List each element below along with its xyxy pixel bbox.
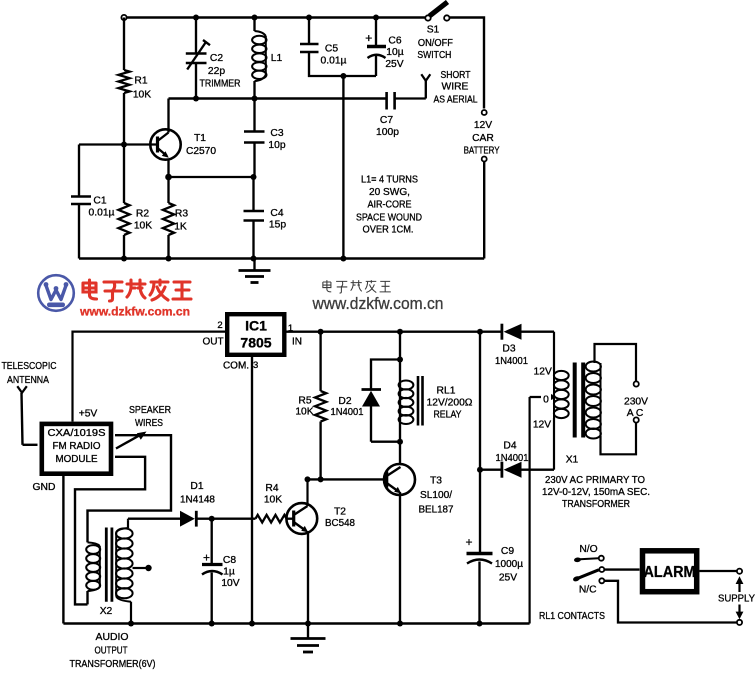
svg-text:SL100/: SL100/ [420, 490, 452, 501]
capacitor C3 10p [244, 99, 286, 178]
svg-text:1N4001: 1N4001 [495, 356, 528, 367]
svg-text:7805: 7805 [240, 335, 271, 351]
junction C5/C6 ground link [340, 73, 346, 79]
svg-text:C9: C9 [501, 546, 514, 557]
wire top supply rail [127, 16, 426, 18]
svg-text:20 SWG,: 20 SWG, [369, 187, 410, 198]
wire N/C contact to supply return [604, 581, 737, 623]
switch S1 [417, 2, 453, 61]
svg-text:TELESCOPIC: TELESCOPIC [2, 361, 57, 372]
svg-text:T3: T3 [430, 476, 442, 487]
junction ground / T3 emitter [397, 621, 403, 627]
diode D4 1N4001 [480, 441, 554, 478]
svg-text:ON/OFF: ON/OFF [418, 38, 453, 49]
svg-text:SHORT: SHORT [441, 70, 472, 81]
wire alarm to supply [700, 570, 737, 572]
note X1 transformer rating [542, 475, 650, 510]
svg-text:C6: C6 [388, 36, 401, 47]
svg-text:0.01µ: 0.01µ [89, 208, 115, 219]
junction emitter node [165, 174, 172, 181]
capacitor C5 0.01u [300, 18, 376, 77]
svg-text:C8: C8 [223, 555, 236, 566]
svg-text:www.dzkfw.com.cn: www.dzkfw.com.cn [312, 295, 444, 313]
capacitor C1 0.01u [71, 145, 115, 259]
wire X1 center tap to ground rail [528, 397, 530, 624]
transistor T2 BC548 [286, 503, 355, 534]
junction IN / relay branch [397, 329, 403, 335]
relay RL1 contacts common arm [572, 567, 604, 582]
svg-text:ALARM: ALARM [644, 564, 696, 581]
svg-text:R3: R3 [175, 209, 188, 220]
label audio transformer [70, 632, 156, 670]
svg-text:10p: 10p [268, 140, 285, 151]
svg-text:CAR: CAR [472, 133, 494, 144]
capacitor C9 1000u 25V electrolytic [465, 535, 523, 624]
resistor R3 1K [163, 177, 188, 259]
junction IN / C9 D4 branch [477, 329, 483, 335]
svg-text:A C: A C [627, 408, 644, 419]
junction tank rail / L1 C3 [252, 96, 258, 102]
junction IN / R5 [318, 329, 324, 335]
svg-text:OUT: OUT [202, 337, 223, 348]
junction C3 C4 midpoint [251, 174, 257, 180]
svg-text:BATTERY: BATTERY [464, 146, 500, 157]
junction top rail / C2 [193, 15, 199, 21]
ground symbol top circuit [239, 259, 271, 283]
svg-text:10K: 10K [295, 407, 313, 418]
svg-text:0.01µ: 0.01µ [321, 56, 347, 67]
svg-text:12V-0-12V, 150mA SEC.: 12V-0-12V, 150mA SEC. [542, 487, 650, 498]
center watermark gray brand characters [323, 280, 391, 293]
FM radio module CXA/1019S [42, 424, 111, 474]
junction ground / C8 [209, 621, 215, 627]
wire module audio out lower [75, 457, 145, 605]
diode D1 1N4148 [128, 481, 215, 527]
capacitor C6 10u 25V electrolytic [365, 18, 404, 77]
junction ground / C4 [251, 256, 257, 262]
svg-text:D3: D3 [502, 344, 515, 355]
node supply-terminal top-left [121, 15, 126, 20]
svg-text:+: + [465, 535, 472, 549]
svg-text:25V: 25V [385, 59, 403, 70]
svg-text:D2: D2 [338, 396, 351, 407]
svg-text:1N4001: 1N4001 [331, 407, 364, 418]
junction ground / C5 C6 [340, 256, 346, 262]
svg-text:R4: R4 [265, 483, 278, 494]
relay RL1 contacts N/C [579, 578, 604, 595]
svg-text:D1: D1 [190, 481, 203, 492]
junction relay/D2 top [397, 357, 403, 363]
label speaker wires + arrow [116, 405, 171, 449]
svg-text:WIRES: WIRES [135, 418, 163, 429]
junction top rail / L1 [252, 15, 258, 21]
svg-text:S1: S1 [427, 25, 440, 36]
svg-text:10µ: 10µ [386, 47, 403, 58]
capacitor C4 15p [244, 177, 287, 259]
wire top circuit ground rail [79, 257, 484, 260]
svg-text:AS AERIAL: AS AERIAL [434, 95, 478, 106]
svg-text:3: 3 [253, 360, 258, 371]
svg-text:22p: 22p [208, 66, 225, 77]
wire T3 emitter to ground [399, 492, 401, 624]
svg-text:10K: 10K [134, 221, 152, 232]
junction ground / IC1 COM [249, 621, 255, 627]
diode D3 1N4001 [495, 324, 554, 367]
svg-text:X2: X2 [100, 606, 113, 617]
wire switch to battery positive [450, 18, 484, 109]
wire T1 base net [79, 143, 158, 145]
svg-text:L1: L1 [271, 53, 283, 64]
junction top rail / C6 [373, 15, 379, 21]
IC U1 7805 regulator [227, 314, 284, 355]
svg-text:IC1: IC1 [245, 318, 267, 334]
relay RL1 coil 12V/200ohm [399, 360, 473, 442]
svg-text:10K: 10K [264, 495, 282, 506]
svg-text:15p: 15p [269, 220, 286, 231]
junction ground / X2 secondary [128, 621, 134, 627]
wire T2 collector up to T3 base rail [306, 479, 308, 506]
svg-text:BEL187: BEL187 [419, 505, 454, 516]
svg-text:SUPPLY: SUPPLY [718, 594, 755, 605]
wire T1 emitter to C3/C4 node [167, 159, 169, 178]
svg-text:C1: C1 [93, 196, 106, 207]
wire battery negative to ground rail [483, 162, 485, 259]
telescopic antenna [2, 361, 57, 445]
svg-text:1000µ: 1000µ [495, 559, 523, 570]
transformer X1 mains [530, 332, 649, 470]
junction ground / T2 emitter [305, 621, 311, 627]
wire tank rail (collector net) [169, 97, 387, 99]
svg-text:TRIMMER: TRIMMER [200, 79, 241, 90]
diode D2 1N4001 [331, 360, 401, 442]
svg-text:RL1 CONTACTS: RL1 CONTACTS [539, 611, 605, 622]
svg-text:12V: 12V [533, 420, 551, 431]
svg-text:SPEAKER: SPEAKER [129, 405, 171, 416]
junction ground / R2 [121, 256, 127, 262]
svg-text:10V: 10V [221, 578, 239, 589]
svg-text:+: + [203, 551, 210, 565]
svg-text:R2: R2 [136, 209, 149, 220]
junction D4 anode / C9 [477, 467, 483, 473]
svg-text:N/O: N/O [579, 544, 597, 555]
resistor R4 10K [212, 483, 294, 523]
svg-text:R5: R5 [298, 396, 311, 407]
svg-text:10K: 10K [133, 90, 151, 101]
capacitor C7 100p [376, 92, 426, 138]
svg-text:25V: 25V [499, 573, 517, 584]
junction R5 bottom [318, 476, 324, 482]
svg-text:RL1: RL1 [437, 386, 456, 397]
svg-text:R1: R1 [134, 76, 147, 87]
svg-text:1N4148: 1N4148 [180, 495, 215, 506]
junction tank rail / C2 [193, 96, 199, 102]
svg-text:AIR-CORE: AIR-CORE [368, 200, 412, 211]
svg-text:T1: T1 [194, 133, 206, 144]
battery B1 12V car battery terminals [464, 110, 500, 162]
wire IC1 OUT to +5V line [73, 332, 226, 422]
svg-text:L1= 4 TURNS: L1= 4 TURNS [361, 175, 418, 186]
svg-text:C2570: C2570 [186, 146, 216, 157]
svg-text:X1: X1 [566, 455, 579, 466]
svg-text:C4: C4 [270, 208, 283, 219]
wire module GND down [62, 476, 64, 624]
aerial short wire antenna [421, 70, 477, 106]
svg-text:C5: C5 [325, 44, 338, 55]
label supply with arrows [718, 576, 755, 619]
svg-text:MODULE: MODULE [56, 454, 98, 465]
inductor L1 [252, 18, 282, 99]
wire IC1 IN rail [287, 331, 503, 333]
wire IC1 COM to ground [251, 357, 253, 624]
svg-text:1N4001: 1N4001 [496, 453, 529, 464]
svg-text:12V: 12V [534, 367, 552, 378]
wire common contact to alarm [604, 568, 639, 570]
svg-text:AUDIO: AUDIO [96, 632, 129, 643]
capacitor C8 1u 10V electrolytic [202, 519, 240, 624]
junction relay/D2 bottom [397, 439, 403, 445]
wire relay branch top [399, 332, 401, 360]
svg-text:T2: T2 [334, 507, 346, 518]
svg-text:C3: C3 [270, 128, 283, 139]
resistor R5 10K [295, 332, 326, 480]
junction D1 / C8 / R4 [209, 516, 215, 522]
junction top rail / C5 [306, 15, 312, 21]
junction T2 collector corner [305, 476, 311, 482]
junction base / R1 R2 [121, 142, 127, 148]
wire module audio out upper [88, 435, 172, 542]
wire bottom ground rail [63, 622, 529, 625]
logo watermark red brand characters [83, 280, 191, 301]
svg-text:C7: C7 [380, 115, 393, 126]
ground symbol bottom circuit [291, 624, 326, 653]
svg-text:www.dzkfw.com.cn: www.dzkfw.com.cn [79, 307, 190, 319]
resistor R2 10K [118, 145, 152, 259]
svg-text:WIRE: WIRE [442, 82, 469, 93]
wire T2 emitter to ground [307, 531, 309, 624]
junction ground / C9 [477, 621, 483, 627]
svg-text:1K: 1K [174, 222, 187, 233]
svg-text:TRANSFORMER(6V): TRANSFORMER(6V) [70, 659, 156, 670]
resistor R1 10K [118, 18, 151, 145]
svg-text:2: 2 [217, 320, 222, 331]
logo watermark circle-W [38, 275, 74, 311]
alarm unit box [643, 551, 697, 592]
svg-text:GND: GND [33, 482, 56, 493]
svg-text:BC548: BC548 [325, 518, 355, 529]
svg-text:230V: 230V [624, 397, 648, 408]
svg-text:ANTENNA: ANTENNA [7, 375, 49, 386]
svg-text:SPACE WOUND: SPACE WOUND [356, 213, 422, 224]
transistor T1 C2570 [150, 129, 216, 159]
junction ground / R3 [166, 256, 172, 262]
svg-text:C2: C2 [210, 53, 223, 64]
wire T3 base rail [308, 478, 387, 480]
svg-text:N/C: N/C [579, 585, 597, 596]
svg-text:COM.: COM. [223, 361, 249, 372]
svg-text:+: + [365, 31, 372, 45]
wire C5/C6 ground drop [342, 76, 344, 259]
node supply terminal lower [737, 620, 742, 625]
svg-text:1µ: 1µ [223, 567, 235, 578]
svg-text:IN: IN [292, 337, 302, 348]
svg-text:100p: 100p [376, 127, 399, 138]
svg-text:0: 0 [543, 395, 549, 406]
svg-text:12V/200Ω: 12V/200Ω [427, 398, 473, 409]
svg-text:OVER 1CM.: OVER 1CM. [363, 225, 414, 236]
svg-text:SWITCH: SWITCH [417, 50, 451, 61]
wire rectifier bus down [479, 332, 481, 553]
note L1 winding details [356, 175, 422, 236]
svg-text:OUTPUT: OUTPUT [95, 646, 129, 657]
wire T1 collector to tank rail [167, 99, 169, 133]
capacitor C2 22p trimmer [186, 18, 241, 99]
svg-text:12V: 12V [474, 120, 492, 131]
node supply terminal upper [737, 569, 742, 574]
transformer X2 audio output 6V [86, 521, 152, 624]
svg-text:D4: D4 [503, 441, 516, 452]
transistor T3 SL100/BEL187 [384, 442, 454, 516]
svg-text:CXA/1019S: CXA/1019S [48, 428, 107, 439]
relay RL1 contacts N/O [574, 544, 604, 563]
svg-text:+5V: +5V [79, 409, 98, 420]
svg-text:230V AC PRIMARY TO: 230V AC PRIMARY TO [545, 475, 645, 486]
svg-text:RELAY: RELAY [434, 410, 462, 421]
svg-text:TRANSFORMER: TRANSFORMER [562, 499, 630, 510]
svg-text:FM RADIO: FM RADIO [53, 441, 101, 452]
